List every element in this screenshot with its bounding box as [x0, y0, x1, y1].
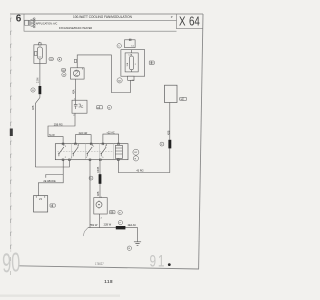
header box	[24, 14, 203, 31]
thermal switch (fan speed controller) box	[121, 50, 145, 76]
battery box	[34, 196, 48, 212]
wire from resistor down	[39, 63, 41, 86]
page frame top border	[10, 13, 203, 15]
relay bottom pins	[62, 159, 119, 161]
relay / control unit block	[55, 144, 128, 160]
wire suppressor to relay (zigzag)	[48, 113, 75, 144]
svg-text:7B2 W: 7B2 W	[90, 224, 98, 227]
svg-text:2.5N: 2.5N	[37, 78, 40, 83]
pump pill label	[109, 211, 115, 215]
connector circle on left pump wire	[89, 176, 93, 180]
relay internal cell dividers	[72, 144, 114, 160]
relay linkage dashed line	[58, 150, 114, 152]
relay switch contacts	[58, 144, 106, 157]
relay coil	[115, 145, 122, 158]
resistor number pill 217	[49, 58, 54, 61]
motor top pin label	[74, 59, 76, 62]
svg-text:43A: 43A	[72, 89, 75, 94]
right wire connector circle	[160, 142, 164, 146]
motor connector circle	[62, 73, 66, 77]
page frame right border	[199, 14, 203, 269]
ink dot next to 91	[168, 263, 171, 266]
thermal switch pill label	[149, 61, 154, 65]
svg-text:2E ABCDE: 2E ABCDE	[43, 180, 56, 183]
cooling fan motor box	[71, 68, 85, 79]
ground symbol	[134, 242, 141, 246]
svg-text:2E4 AC: 2E4 AC	[128, 224, 137, 227]
page frame bottom border	[18, 266, 199, 269]
pump connector circle 1	[118, 210, 122, 214]
binding dark mark	[10, 129, 13, 137]
svg-text:F3N ENGINE/BASIC HEATER: F3N ENGINE/BASIC HEATER	[59, 26, 92, 30]
svg-text:6: 6	[16, 14, 22, 25]
connector circle R	[31, 88, 35, 92]
stub wire under relay	[46, 175, 63, 178]
junction box pill label	[180, 97, 187, 101]
svg-text:43 RG: 43 RG	[136, 170, 143, 173]
wire continues to junction row	[35, 94, 40, 167]
suppressor connector circle	[107, 105, 111, 109]
ground connector circle	[127, 246, 131, 250]
svg-text:64: 64	[189, 15, 200, 29]
harness connector (black) on pump wire	[99, 174, 102, 184]
svg-text:43B: 43B	[97, 191, 100, 196]
wire bottom run to relay pin 1	[35, 160, 69, 167]
suppressor pill label	[96, 106, 102, 110]
thermal switch bottom connector circle	[117, 78, 122, 83]
resistor internal tick	[38, 56, 41, 58]
wire relay pin2 to battery	[38, 160, 63, 196]
svg-text:91: 91	[150, 253, 167, 271]
battery pill label	[50, 204, 55, 208]
svg-text:APPLICATION: A/C: APPLICATION: A/C	[36, 21, 57, 25]
left binding edge with stitch marks	[10, 14, 12, 275]
svg-text:P: P	[171, 15, 173, 19]
harness connector (black) on ground bus	[116, 226, 126, 229]
pump connector circle 2	[118, 220, 122, 224]
resistor connector circle	[58, 57, 62, 61]
wire relay pin5 to pump	[99, 160, 101, 198]
wire motor top loop to thermal switch	[77, 55, 130, 93]
svg-text:22A GR: 22A GR	[79, 132, 88, 135]
svg-text:M: M	[63, 75, 65, 77]
harness connector (black) on right wire	[168, 140, 171, 149]
pump / actuator box	[94, 198, 107, 214]
jumper staple pins 2-4	[103, 134, 119, 144]
svg-text:176027: 176027	[95, 262, 104, 266]
svg-text:X: X	[179, 15, 186, 29]
fan resistor unit box	[34, 42, 46, 64]
relay top pins	[62, 143, 119, 145]
svg-text:43B: 43B	[32, 105, 35, 110]
svg-text:100-WATT COOLING FAN/MODULATIO: 100-WATT COOLING FAN/MODULATION	[73, 14, 132, 18]
suppressor capacitor box	[72, 100, 87, 113]
svg-text:90: 90	[2, 247, 21, 279]
svg-text:C4B: C4B	[128, 55, 133, 57]
wire relay pin4 down (left pump wire)	[89, 160, 91, 228]
svg-text:43B: 43B	[167, 130, 170, 135]
wire motor to suppressor	[75, 79, 77, 100]
ground bus wire	[88, 228, 138, 242]
right junction box	[165, 85, 178, 102]
thermal switch top connector box	[125, 39, 136, 48]
header harness connector icon	[25, 18, 35, 28]
jumper staple pins 5-1	[75, 135, 91, 144]
wire pump to ground bus	[99, 214, 101, 228]
svg-text:118: 118	[104, 279, 113, 284]
svg-text:C43B: C43B	[97, 166, 100, 173]
relay connector circles (right)	[133, 149, 139, 161]
thermal switch top connector circle	[117, 44, 121, 48]
svg-text:25B RG: 25B RG	[54, 123, 63, 126]
thermal switch bottom pin box	[128, 76, 135, 82]
svg-text:22B W: 22B W	[104, 224, 112, 227]
harness connector (black) on resistor wire	[39, 86, 42, 94]
motor pill label	[61, 69, 66, 72]
bottom scan shadow	[0, 295, 120, 297]
bus end stub	[83, 228, 88, 236]
svg-text:+22 AC: +22 AC	[106, 132, 114, 135]
wire junction box to relay coil	[118, 103, 170, 173]
svg-text:7A W: 7A W	[49, 134, 56, 137]
